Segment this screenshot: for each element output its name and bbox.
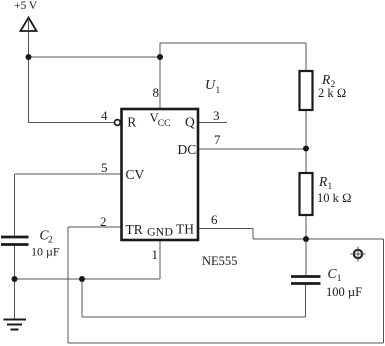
- wire pin7 DC to R1/R2 junction: [198, 148, 306, 150]
- svg-text:TH: TH: [176, 222, 194, 237]
- IC U1 NE555 body: [122, 109, 199, 240]
- wire bottom loop y=343: [68, 342, 384, 344]
- svg-text:+5 V: +5 V: [14, 0, 38, 12]
- wire pin2 TR horizontal y=227: [68, 226, 122, 228]
- wire horizontal y=43 from x160 to x306: [160, 42, 306, 44]
- wire x=14.5 down to C2 top plate: [14, 174, 16, 237]
- svg-text:Q: Q: [185, 115, 195, 130]
- power symbol +5V triangle: [14, 0, 38, 31]
- wire +5V rail horizontal y=57: [29, 56, 161, 58]
- wire pin4 horizontal y=122: [28, 122, 114, 124]
- wire pin5 CV horizontal y=174: [15, 173, 122, 175]
- wire pin1 GND vertical x=160: [159, 240, 161, 279]
- wire right edge vertical x=384: [383, 239, 385, 343]
- svg-text:7: 7: [214, 132, 221, 147]
- wire y=279 horizontal ground rail: [15, 278, 161, 280]
- wire x=82 vertical down: [81, 279, 83, 317]
- node junction dot (R1/C1/TH): [303, 236, 309, 242]
- node junction dot (VCC branch): [157, 54, 163, 60]
- pin 4 inverting bubble: [115, 120, 121, 126]
- capacitor C1: [291, 266, 362, 299]
- wire x=253 vertical short: [252, 229, 254, 240]
- wire C2 bottom to ground: [14, 245, 16, 319]
- wire y=317 horizontal to C1 bottom: [82, 316, 306, 318]
- svg-text:R: R: [127, 115, 136, 130]
- svg-text:CC: CC: [158, 119, 171, 129]
- svg-text:5: 5: [101, 160, 108, 175]
- svg-text:2: 2: [100, 214, 107, 229]
- svg-text:3: 3: [213, 108, 220, 123]
- node junction dot (ground rail / C1 return): [79, 276, 85, 282]
- svg-text:R: R: [318, 174, 328, 189]
- svg-text:1: 1: [152, 247, 159, 262]
- wire x=68 vertical down to bottom loop: [67, 227, 69, 343]
- svg-text:8: 8: [153, 85, 160, 100]
- wire vertical x=306 down to R2 top: [305, 43, 307, 71]
- svg-text:CV: CV: [126, 167, 145, 182]
- wire vertical x=160 from y43 to IC top (pin 8): [159, 43, 161, 109]
- svg-text:2 k Ω: 2 k Ω: [318, 86, 346, 100]
- resistor R2: [300, 71, 347, 110]
- test point crosshair: [351, 247, 366, 262]
- svg-text:TR: TR: [126, 222, 143, 237]
- capacitor C2: [1, 228, 60, 259]
- wire pin3 output stub: [198, 122, 227, 124]
- resistor R1: [300, 173, 352, 215]
- wire R2 bottom to R1 top: [305, 110, 307, 173]
- node junction dot (R2/R1/pin7): [303, 146, 309, 152]
- svg-text:10 µF: 10 µF: [31, 245, 60, 259]
- wire C1 bottom plate down to y=317: [305, 284, 307, 317]
- svg-text:U: U: [205, 78, 216, 93]
- svg-text:100 µF: 100 µF: [326, 285, 362, 299]
- svg-text:DC: DC: [178, 142, 197, 157]
- svg-text:GND: GND: [147, 225, 173, 239]
- svg-text:R: R: [321, 72, 331, 87]
- svg-text:4: 4: [101, 108, 108, 123]
- svg-text:1: 1: [216, 86, 221, 96]
- svg-text:1: 1: [337, 274, 342, 284]
- svg-text:6: 6: [211, 212, 218, 227]
- ground: [4, 320, 27, 330]
- wire R1 bottom to C1 top: [305, 215, 307, 276]
- svg-text:10 k Ω: 10 k Ω: [317, 191, 352, 205]
- op-amp U1 label: [205, 78, 221, 96]
- wire y=239 horizontal to right edge: [253, 238, 384, 240]
- node junction dot (C2/ground rail): [12, 276, 18, 282]
- node junction dot (+5V rail left): [26, 54, 32, 60]
- svg-text:NE555: NE555: [202, 254, 237, 268]
- wire +5V vertical down to pin4 corner: [28, 18, 30, 123]
- wire pin6 TH horizontal y=228.5: [198, 228, 253, 230]
